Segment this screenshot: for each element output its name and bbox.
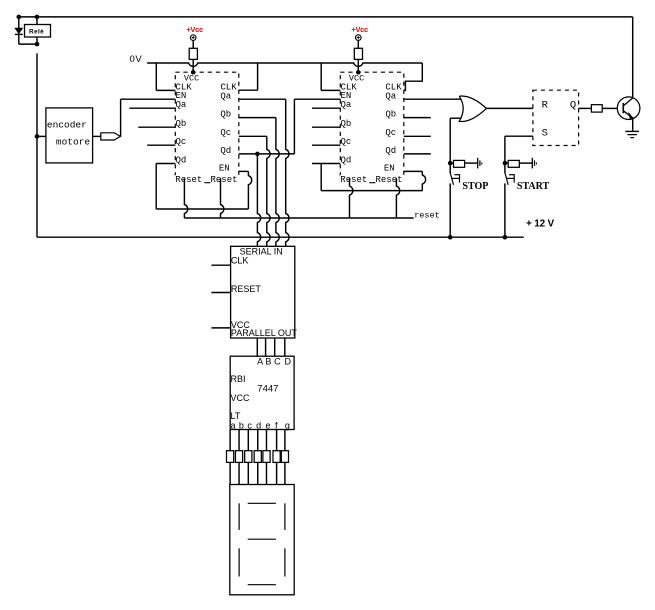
wire U4 out C xyxy=(274,338,276,356)
shift register U4 box xyxy=(231,246,295,338)
wire U2 Qd left xyxy=(312,163,340,165)
wire R2 to U2 VCC xyxy=(357,59,359,72)
segment d xyxy=(248,584,276,586)
svg-text:D: D xyxy=(285,357,292,367)
wire 0V to U1 CLK left xyxy=(155,63,157,90)
wire U2 Qc stub right xyxy=(404,135,431,137)
svg-text:Q: Q xyxy=(570,100,576,112)
node junction relay top xyxy=(35,15,40,20)
wire U5 a out xyxy=(229,430,231,451)
resistor R10 segment e xyxy=(263,451,270,463)
wire U1 EN loop bottom xyxy=(156,208,248,210)
wire button to rail 2 xyxy=(504,183,506,237)
wire U2 EN loop bottom xyxy=(321,190,422,192)
wire U4 out D xyxy=(284,338,286,356)
svg-text:Qc: Qc xyxy=(385,128,396,138)
wire U5 c out xyxy=(247,430,249,451)
resistor R11 segment f xyxy=(273,451,280,463)
wire R5 to base xyxy=(602,107,617,109)
svg-text:Qc: Qc xyxy=(341,137,352,147)
wire U1 EN loop drop xyxy=(248,171,251,209)
wire U4 VCC stub xyxy=(211,327,230,329)
wire clock riser to EN xyxy=(120,99,122,136)
power +Vcc 2 xyxy=(356,35,362,41)
wire +12V bottom rail xyxy=(37,236,524,238)
diode D1 flyback xyxy=(18,17,20,28)
wire diode to relay bottom xyxy=(19,43,37,45)
resistor R4 start xyxy=(508,160,519,167)
resistor R12 segment g xyxy=(281,451,288,463)
svg-text:a: a xyxy=(230,421,235,431)
ground emitter xyxy=(625,130,639,132)
wire U1 Qb out xyxy=(239,117,276,119)
wire U4 out B xyxy=(265,338,267,356)
wire 0V rail xyxy=(147,63,422,66)
decoder U5 7447 box xyxy=(230,356,294,429)
wire left vertical bus xyxy=(36,53,38,237)
wire carry to U2 EN xyxy=(294,98,340,100)
svg-text:+ 12 V: + 12 V xyxy=(526,218,555,229)
wire 0V to U1 CLK right xyxy=(257,63,259,90)
wire U2 Qc stub xyxy=(312,144,340,146)
resistor R9 segment d xyxy=(254,451,261,463)
svg-text:R: R xyxy=(542,100,549,112)
svg-text:Qa: Qa xyxy=(385,91,396,101)
svg-text:Relè: Relè xyxy=(29,29,44,36)
wire U2 EN right xyxy=(404,170,423,172)
wire segment g to display xyxy=(284,462,286,484)
or-gate G1 xyxy=(459,96,486,121)
pushbutton STOP xyxy=(450,173,453,185)
svg-text:7447: 7447 xyxy=(257,383,278,394)
wire OR input2 xyxy=(450,117,461,119)
counter U1 box xyxy=(175,72,239,178)
svg-text:Reset: Reset xyxy=(175,175,202,185)
wire STOP resistor lead xyxy=(450,162,453,164)
wire 0V to U2 CLK left xyxy=(320,63,322,90)
wire top +12V rail xyxy=(19,16,633,18)
svg-text:reset: reset xyxy=(414,210,440,220)
wire emitter xyxy=(632,118,634,131)
wire bus C from U1 Qc xyxy=(267,136,270,246)
svg-text:Reset: Reset xyxy=(340,175,367,185)
wire U2 Qd drop xyxy=(320,164,322,191)
svg-text:Qb: Qb xyxy=(176,119,187,129)
node STOP rail xyxy=(448,235,453,240)
resistor R2 pullup xyxy=(354,48,362,59)
wire bus B from U1 Qb xyxy=(276,118,279,247)
node STOP tap xyxy=(448,161,453,166)
node junction rail left xyxy=(17,15,22,20)
svg-text:Qd: Qd xyxy=(385,146,396,156)
resistor R8 segment c xyxy=(245,451,252,463)
wire segment b to display xyxy=(238,462,240,484)
wire segment e to display xyxy=(266,462,268,484)
svg-text:motore: motore xyxy=(56,136,91,147)
svg-text:PARALLEL OUT: PARALLEL OUT xyxy=(231,328,298,338)
svg-text:0V: 0V xyxy=(130,54,143,65)
node junction relay bottom xyxy=(35,42,40,47)
svg-text:Qd: Qd xyxy=(341,155,352,165)
wire U1 Qc stub xyxy=(147,144,175,146)
wire U5 f out xyxy=(276,430,278,451)
wire U5 b out xyxy=(238,430,240,451)
wire U5 g out xyxy=(284,430,286,451)
wire U1 Qd left xyxy=(156,163,175,165)
svg-text:Qa: Qa xyxy=(176,100,187,110)
svg-text:S: S xyxy=(542,128,548,140)
node U1 VCC pin xyxy=(191,70,196,75)
net arrow clock xyxy=(101,133,121,140)
svg-text:Reset: Reset xyxy=(376,175,403,185)
wire U1 Qc out xyxy=(239,135,267,137)
wire segment a to display xyxy=(229,462,231,484)
wire U1 Qd drop xyxy=(155,164,157,210)
flip-flop U3 RS box xyxy=(533,90,579,145)
svg-text:c: c xyxy=(247,421,252,431)
node U2 VCC pin xyxy=(356,70,361,75)
wire U5 d out xyxy=(257,430,259,451)
wire clock to U1 EN xyxy=(121,98,176,100)
wire U2 Reset drop 2 xyxy=(396,178,399,218)
svg-text:+Vcc: +Vcc xyxy=(186,25,203,34)
node junction encoder tap xyxy=(35,134,40,139)
svg-text:Qb: Qb xyxy=(385,110,396,120)
svg-text:encoder: encoder xyxy=(47,119,87,130)
display DS1 box xyxy=(230,485,294,595)
svg-text:Qa: Qa xyxy=(220,91,231,101)
resistor R7 segment b xyxy=(235,451,242,463)
svg-text:START: START xyxy=(517,181,550,192)
svg-text:Qd: Qd xyxy=(220,146,231,156)
wire U4 CLK stub xyxy=(211,264,230,266)
svg-text:Qc: Qc xyxy=(176,137,187,147)
wire U4 RESET stub xyxy=(211,292,230,294)
node U1 Qd bus tap xyxy=(255,152,260,157)
wire U2 Qd stub right xyxy=(404,153,431,155)
wire bus A from U1 Qa xyxy=(286,99,289,246)
wire U1 EN right xyxy=(239,170,249,172)
wire R1 to U1 VCC xyxy=(192,59,194,72)
resistor R1 pullup xyxy=(189,48,197,59)
wire encoder left xyxy=(37,135,46,137)
ground STOP xyxy=(477,158,479,169)
svg-text:Reset: Reset xyxy=(211,175,238,185)
wire START riser xyxy=(504,136,506,163)
wire R4 to ground xyxy=(519,162,532,164)
resistor R5 base xyxy=(591,105,602,112)
wire segment c to display xyxy=(247,462,249,484)
wire U2 Reset drop 1 xyxy=(350,178,353,218)
svg-text:e: e xyxy=(265,421,270,431)
svg-text:EN: EN xyxy=(219,163,230,173)
svg-text:Qc: Qc xyxy=(220,128,231,138)
wire U2 Qb stub right xyxy=(404,117,431,119)
wire carry U1 Qd to U2 EN riser xyxy=(293,99,295,154)
wire STOP riser xyxy=(449,118,451,163)
counter U2 box xyxy=(340,72,404,178)
svg-text:+Vcc: +Vcc xyxy=(351,25,368,34)
svg-text:EN: EN xyxy=(384,163,395,173)
segment e xyxy=(238,548,240,576)
wire collector drop right side xyxy=(632,17,634,97)
resistor R3 stop xyxy=(454,160,465,167)
wire button to rail xyxy=(449,183,451,237)
svg-text:Qa: Qa xyxy=(341,100,352,110)
svg-text:RBI: RBI xyxy=(231,374,246,384)
svg-text:C: C xyxy=(274,357,281,367)
wire reset bus xyxy=(184,217,413,219)
wire U1 Qb stub xyxy=(138,126,175,128)
wire segment f to display xyxy=(276,462,278,484)
svg-text:CLK: CLK xyxy=(231,256,249,266)
segment b xyxy=(284,503,286,530)
wire U2 Qa to OR gate xyxy=(404,98,461,100)
wire U4 out A xyxy=(256,338,258,356)
svg-text:b: b xyxy=(239,421,244,431)
wire U2 Qb stub xyxy=(312,126,340,128)
wire U5 e out xyxy=(266,430,268,451)
node START rail xyxy=(503,235,508,240)
node START tap xyxy=(503,161,508,166)
wire U2 EN loop drop xyxy=(422,171,425,190)
wire 0V to U2 CLK right xyxy=(404,63,423,90)
wire Q output xyxy=(579,107,592,109)
segment c xyxy=(284,548,286,576)
wire segment d to display xyxy=(257,462,259,484)
ground START xyxy=(531,158,533,169)
segment f xyxy=(238,503,240,530)
svg-text:d: d xyxy=(256,421,261,431)
svg-text:Qb: Qb xyxy=(341,119,352,129)
wire OR output to R xyxy=(486,107,533,109)
wire START resistor lead xyxy=(505,162,508,164)
wire encoder output xyxy=(93,135,101,137)
transistor Q1 NPN xyxy=(617,97,640,120)
wire U1 Qa stub xyxy=(129,107,175,109)
svg-text:g: g xyxy=(285,421,290,431)
wire U1 Reset drop 2 xyxy=(221,178,224,218)
encoder motore block xyxy=(46,108,93,163)
wire R3 to ground xyxy=(465,162,478,164)
power +Vcc 1 xyxy=(190,35,196,41)
svg-text:B: B xyxy=(265,357,271,367)
wire bus D from U1 Qd xyxy=(257,154,260,246)
wire S input xyxy=(505,135,533,137)
relay RL1 coil xyxy=(25,25,51,38)
wire U2 Qa stub xyxy=(312,107,340,109)
svg-text:A: A xyxy=(257,357,263,367)
svg-text:RESET: RESET xyxy=(231,284,262,294)
wire U1 Reset drop 1 xyxy=(184,178,187,218)
wire U1 Qa out xyxy=(239,98,286,100)
wire U1 Qd out xyxy=(239,153,295,155)
wire STOP to button xyxy=(449,163,451,173)
segment g xyxy=(248,538,276,540)
segment a xyxy=(248,502,276,504)
pushbutton START xyxy=(505,173,508,185)
svg-text:VCC: VCC xyxy=(231,393,251,403)
wire START to button xyxy=(504,163,506,173)
svg-text:STOP: STOP xyxy=(462,181,488,192)
svg-text:Qb: Qb xyxy=(220,110,231,120)
resistor R6 segment a xyxy=(227,451,234,463)
svg-text:Qd: Qd xyxy=(176,155,187,165)
